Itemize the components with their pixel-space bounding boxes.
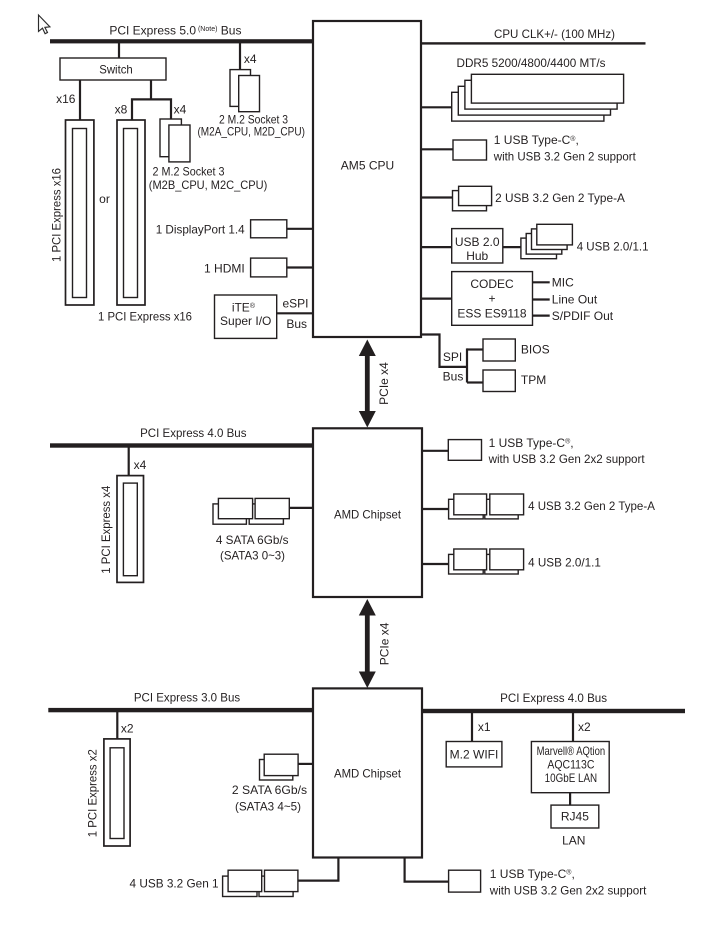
DDR5 DIMM stack: [452, 92, 604, 121]
svg-text:Hub: Hub: [466, 249, 488, 263]
wire bus to slot x2: [116, 712, 118, 739]
svg-text:DDR5 5200/4800/4400 MT/s: DDR5 5200/4800/4400 MT/s: [457, 56, 606, 70]
svg-text:x16: x16: [56, 92, 76, 106]
svg-text:USB 2.0: USB 2.0: [455, 235, 500, 249]
svg-text:MIC: MIC: [552, 275, 574, 289]
svg-text:1 PCI Express x16: 1 PCI Express x16: [50, 168, 64, 262]
wire bus to Marvell LAN: [572, 712, 574, 742]
wire HDMI to CPU: [287, 266, 313, 268]
wire switch to slot1 x16: [79, 80, 81, 120]
wire Line Out: [533, 298, 550, 300]
svg-text:2 USB 3.2 Gen 2 Type-A: 2 USB 3.2 Gen 2 Type-A: [495, 191, 625, 205]
svg-text:x1: x1: [478, 720, 491, 734]
wire chipset to USB Type-C (middle): [422, 450, 448, 452]
wire CPU to CODEC: [421, 298, 452, 300]
svg-text:4 USB 2.0/1.1: 4 USB 2.0/1.1: [577, 240, 649, 254]
svg-text:AM5 CPU: AM5 CPU: [341, 159, 394, 173]
svg-text:(SATA3 4~5): (SATA3 4~5): [235, 800, 301, 814]
BIOS box: [483, 339, 515, 361]
bus PCI Express 4.0 (bottom right): [422, 709, 685, 713]
svg-text:AMD Chipset: AMD Chipset: [334, 508, 402, 522]
svg-text:RJ45: RJ45: [561, 810, 589, 824]
svg-text:1 HDMI: 1 HDMI: [204, 261, 245, 275]
PCIe x4 arrow (chipset 1 to chipset 2): [365, 612, 370, 675]
svg-text:4 USB 3.2 Gen 1: 4 USB 3.2 Gen 1: [130, 877, 219, 891]
svg-text:1 USB Type-C®,: 1 USB Type-C®,: [489, 436, 574, 450]
USB Type-C box (middle): [448, 440, 481, 461]
AMD Chipset box U3: [313, 688, 422, 857]
USB Type-C box (top): [453, 140, 487, 160]
svg-text:or: or: [99, 192, 110, 206]
RJ45 box: [551, 805, 599, 828]
CODEC + ESS ES9118 box: [452, 272, 533, 326]
svg-text:S/PDIF Out: S/PDIF Out: [552, 309, 614, 323]
svg-text:4 SATA 6Gb/s: 4 SATA 6Gb/s: [216, 533, 289, 547]
svg-text:Line Out: Line Out: [552, 293, 598, 307]
svg-text:PCI Express 3.0 Bus: PCI Express 3.0 Bus: [134, 690, 240, 704]
wire bus to switch: [118, 42, 120, 58]
slot 1 PCI Express x16 (first): [66, 120, 94, 305]
4 USB 2.0/1.1 stack: [521, 238, 557, 259]
svg-text:SPI: SPI: [443, 350, 462, 364]
svg-text:(M2B_CPU, M2C_CPU): (M2B_CPU, M2C_CPU): [149, 178, 267, 192]
2 USB 3.2 Gen 2 Type-A stack: [453, 191, 487, 211]
bus PCI Express 3.0: [48, 708, 313, 712]
svg-text:Switch: Switch: [99, 62, 133, 76]
slot 1 PCI Express x16 (second): [117, 120, 145, 305]
AMD Chipset box U2: [313, 428, 422, 597]
Marvell AQtion AQC113C 10GbE LAN box: [531, 742, 609, 793]
svg-text:(SATA3 0~3): (SATA3 0~3): [220, 549, 285, 563]
wire S/PDIF Out: [533, 315, 550, 317]
wire bus to slot x4: [128, 447, 130, 476]
svg-text:10GbE LAN: 10GbE LAN: [545, 771, 598, 785]
svg-text:2 M.2 Socket 3: 2 M.2 Socket 3: [153, 164, 225, 178]
svg-text:PCIe x4: PCIe x4: [377, 362, 391, 405]
svg-text:BIOS: BIOS: [521, 343, 550, 357]
M.2 socket (M2B_CPU, M2C_CPU): [160, 119, 181, 157]
svg-text:1 PCI Express x2: 1 PCI Express x2: [86, 749, 100, 837]
svg-text:1 PCI Express x16: 1 PCI Express x16: [98, 310, 192, 324]
svg-text:with USB 3.2 Gen 2 support: with USB 3.2 Gen 2 support: [493, 150, 637, 164]
mouse cursor: [39, 15, 50, 34]
svg-text:PCIe x4: PCIe x4: [378, 622, 392, 665]
4 USB 3.2 Gen 2 Type-A stack: [449, 499, 484, 519]
wire CPU to USB 2.0 Hub: [421, 246, 452, 248]
wire bus to M.2 WIFI: [471, 712, 473, 742]
bus PCI Express 5.0: [50, 39, 313, 43]
svg-text:with USB 3.2 Gen 2x2 support: with USB 3.2 Gen 2x2 support: [489, 883, 647, 897]
svg-text:1 USB Type-C®,: 1 USB Type-C®,: [490, 867, 575, 881]
switch box: [60, 58, 166, 80]
svg-text:M.2 WIFI: M.2 WIFI: [450, 747, 499, 761]
4 USB 3.2 Gen 1 stack: [223, 876, 257, 896]
wire SATA to chipset: [289, 507, 313, 509]
svg-text:AMD Chipset: AMD Chipset: [334, 766, 402, 780]
wire SATA to chipset 2: [298, 763, 313, 765]
svg-text:AQC113C: AQC113C: [547, 757, 594, 771]
iTE Super I/O box U-SIO: [215, 295, 277, 338]
svg-text:x8: x8: [115, 102, 128, 116]
svg-text:1 PCI Express x4: 1 PCI Express x4: [99, 485, 113, 573]
wire MIC: [533, 281, 550, 283]
svg-text:LAN: LAN: [562, 834, 585, 848]
svg-text:eSPI: eSPI: [282, 296, 308, 310]
wire chipset to 4 USB 2.0 (middle): [422, 563, 449, 565]
svg-text:1 USB Type-C®,: 1 USB Type-C®,: [494, 133, 579, 147]
svg-text:4 USB 3.2 Gen 2 Type-A: 4 USB 3.2 Gen 2 Type-A: [528, 499, 655, 513]
svg-text:CPU CLK+/- (100 MHz): CPU CLK+/- (100 MHz): [494, 27, 615, 41]
svg-text:CODEC: CODEC: [470, 277, 514, 291]
4 SATA 6Gb/s connectors (SATA3 0~3): [213, 504, 246, 524]
svg-text:1 DisplayPort 1.4: 1 DisplayPort 1.4: [156, 223, 245, 237]
svg-text:with USB 3.2 Gen 2x2 support: with USB 3.2 Gen 2x2 support: [488, 452, 646, 466]
bus PCI Express 4.0 (middle): [50, 443, 313, 447]
PCIe x4 arrow (CPU to chipset 1): [365, 352, 370, 415]
svg-text:4 USB 2.0/1.1: 4 USB 2.0/1.1: [528, 555, 601, 569]
svg-text:(M2A_CPU, M2D_CPU): (M2A_CPU, M2D_CPU): [197, 124, 305, 138]
svg-text:x4: x4: [244, 52, 257, 66]
svg-text:Super I/O: Super I/O: [220, 314, 271, 328]
wire DisplayPort to CPU: [287, 228, 313, 230]
svg-text:x4: x4: [174, 102, 187, 116]
svg-text:PCI Express 5.0 (Note) Bus: PCI Express 5.0 (Note) Bus: [109, 24, 241, 38]
svg-text:x4: x4: [134, 458, 147, 472]
wire chipset 2 to USB Type-C (bottom): [405, 857, 449, 882]
wire hub to USB stack: [503, 246, 521, 248]
wire Marvell to RJ45: [569, 793, 571, 805]
DisplayPort box: [251, 220, 287, 238]
svg-text:x2: x2: [121, 722, 134, 736]
wire CPU to USB 3.2 Gen2 Type-A: [421, 196, 453, 198]
M.2 socket (M2A_CPU, M2D_CPU): [230, 70, 251, 107]
wire T-bar: [132, 99, 171, 120]
AM5 CPU box U1: [313, 21, 421, 337]
wire bus to M.2 top: [239, 42, 241, 70]
svg-text:+: +: [488, 292, 495, 306]
wire switch to T-split: [150, 80, 152, 100]
wire CPU CLK line: [421, 42, 646, 44]
svg-text:PCI Express 4.0 Bus: PCI Express 4.0 Bus: [500, 691, 607, 705]
TPM box: [483, 370, 515, 392]
svg-text:Bus: Bus: [443, 370, 464, 384]
wire chipset 2 to 4 USB 3.2 Gen 1: [298, 857, 339, 881]
svg-text:ESS ES9118: ESS ES9118: [457, 306, 526, 320]
wire SPI bus from CPU: [421, 335, 467, 367]
wire CPU to USB Type-C (top): [421, 148, 453, 150]
svg-text:x2: x2: [578, 720, 591, 734]
M.2 WIFI box: [446, 742, 502, 767]
svg-text:Marvell® AQtion: Marvell® AQtion: [537, 744, 606, 758]
svg-text:Bus: Bus: [286, 317, 307, 331]
wire eSPI bus: [277, 312, 313, 314]
svg-text:PCI Express 4.0 Bus: PCI Express 4.0 Bus: [140, 426, 246, 440]
wire CPU to DDR5: [421, 106, 452, 108]
svg-text:2 SATA 6Gb/s: 2 SATA 6Gb/s: [232, 783, 307, 797]
slot 1 PCI Express x2: [104, 739, 130, 846]
wire chipset to 4 USB 3.2 Gen 2: [422, 508, 449, 510]
USB 2.0 Hub box: [452, 229, 503, 263]
4 USB 2.0/1.1 stack (middle): [449, 554, 484, 574]
2 SATA 6Gb/s connectors (SATA3 4~5): [260, 760, 293, 781]
slot 1 PCI Express x4: [117, 476, 144, 583]
HDMI box: [251, 258, 287, 277]
USB Type-C box (bottom): [449, 870, 481, 892]
svg-text:TPM: TPM: [521, 373, 546, 387]
